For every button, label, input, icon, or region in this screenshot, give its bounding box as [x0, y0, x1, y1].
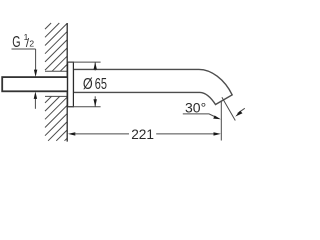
- wall hole bottom edge: [45, 95, 67, 97]
- 30 deg leader arrow: [213, 116, 221, 120]
- dia65 dim line upper: [94, 62, 96, 70]
- 30 deg arc tail: [238, 108, 245, 113]
- G 1/2 leader line: [35, 49, 37, 71]
- G 1/2 bottom leader: [34, 99, 36, 109]
- 221 dim line right segment: [156, 133, 214, 135]
- wall hole top edge: [45, 70, 67, 72]
- svg-text:221: 221: [131, 127, 154, 143]
- dia65 dim line lower: [94, 96, 96, 106]
- inlet pipe shank: [2, 77, 68, 91]
- 221 dim line left segment: [75, 133, 130, 135]
- 221 dim right arrow: [214, 132, 221, 135]
- wall face line: [66, 23, 68, 142]
- 221 dim left arrow: [68, 132, 75, 135]
- spout tube body: [73, 69, 232, 104]
- 30 deg leader line: [183, 114, 215, 117]
- svg-text:2: 2: [29, 38, 34, 48]
- dia65 top extension line: [68, 61, 101, 63]
- 30 deg arc arrow: [235, 111, 242, 117]
- dia65 up arrow: [94, 62, 97, 69]
- wall hatching upper: [45, 23, 67, 71]
- dia65 down arrow: [94, 99, 97, 106]
- tip vertical extension line: [220, 101, 222, 141]
- G 1/2 bottom arrow: [34, 92, 37, 99]
- G 1/2 top arrow: [34, 70, 37, 77]
- svg-text:Ø: Ø: [83, 76, 93, 93]
- dia65 bottom extension line: [68, 106, 101, 108]
- flange escutcheon: [68, 62, 74, 107]
- svg-text:65: 65: [95, 76, 107, 93]
- 30 deg inclined line: [222, 97, 235, 120]
- wall hatching lower: [45, 96, 67, 140]
- G 1/2 underline: [12, 48, 36, 50]
